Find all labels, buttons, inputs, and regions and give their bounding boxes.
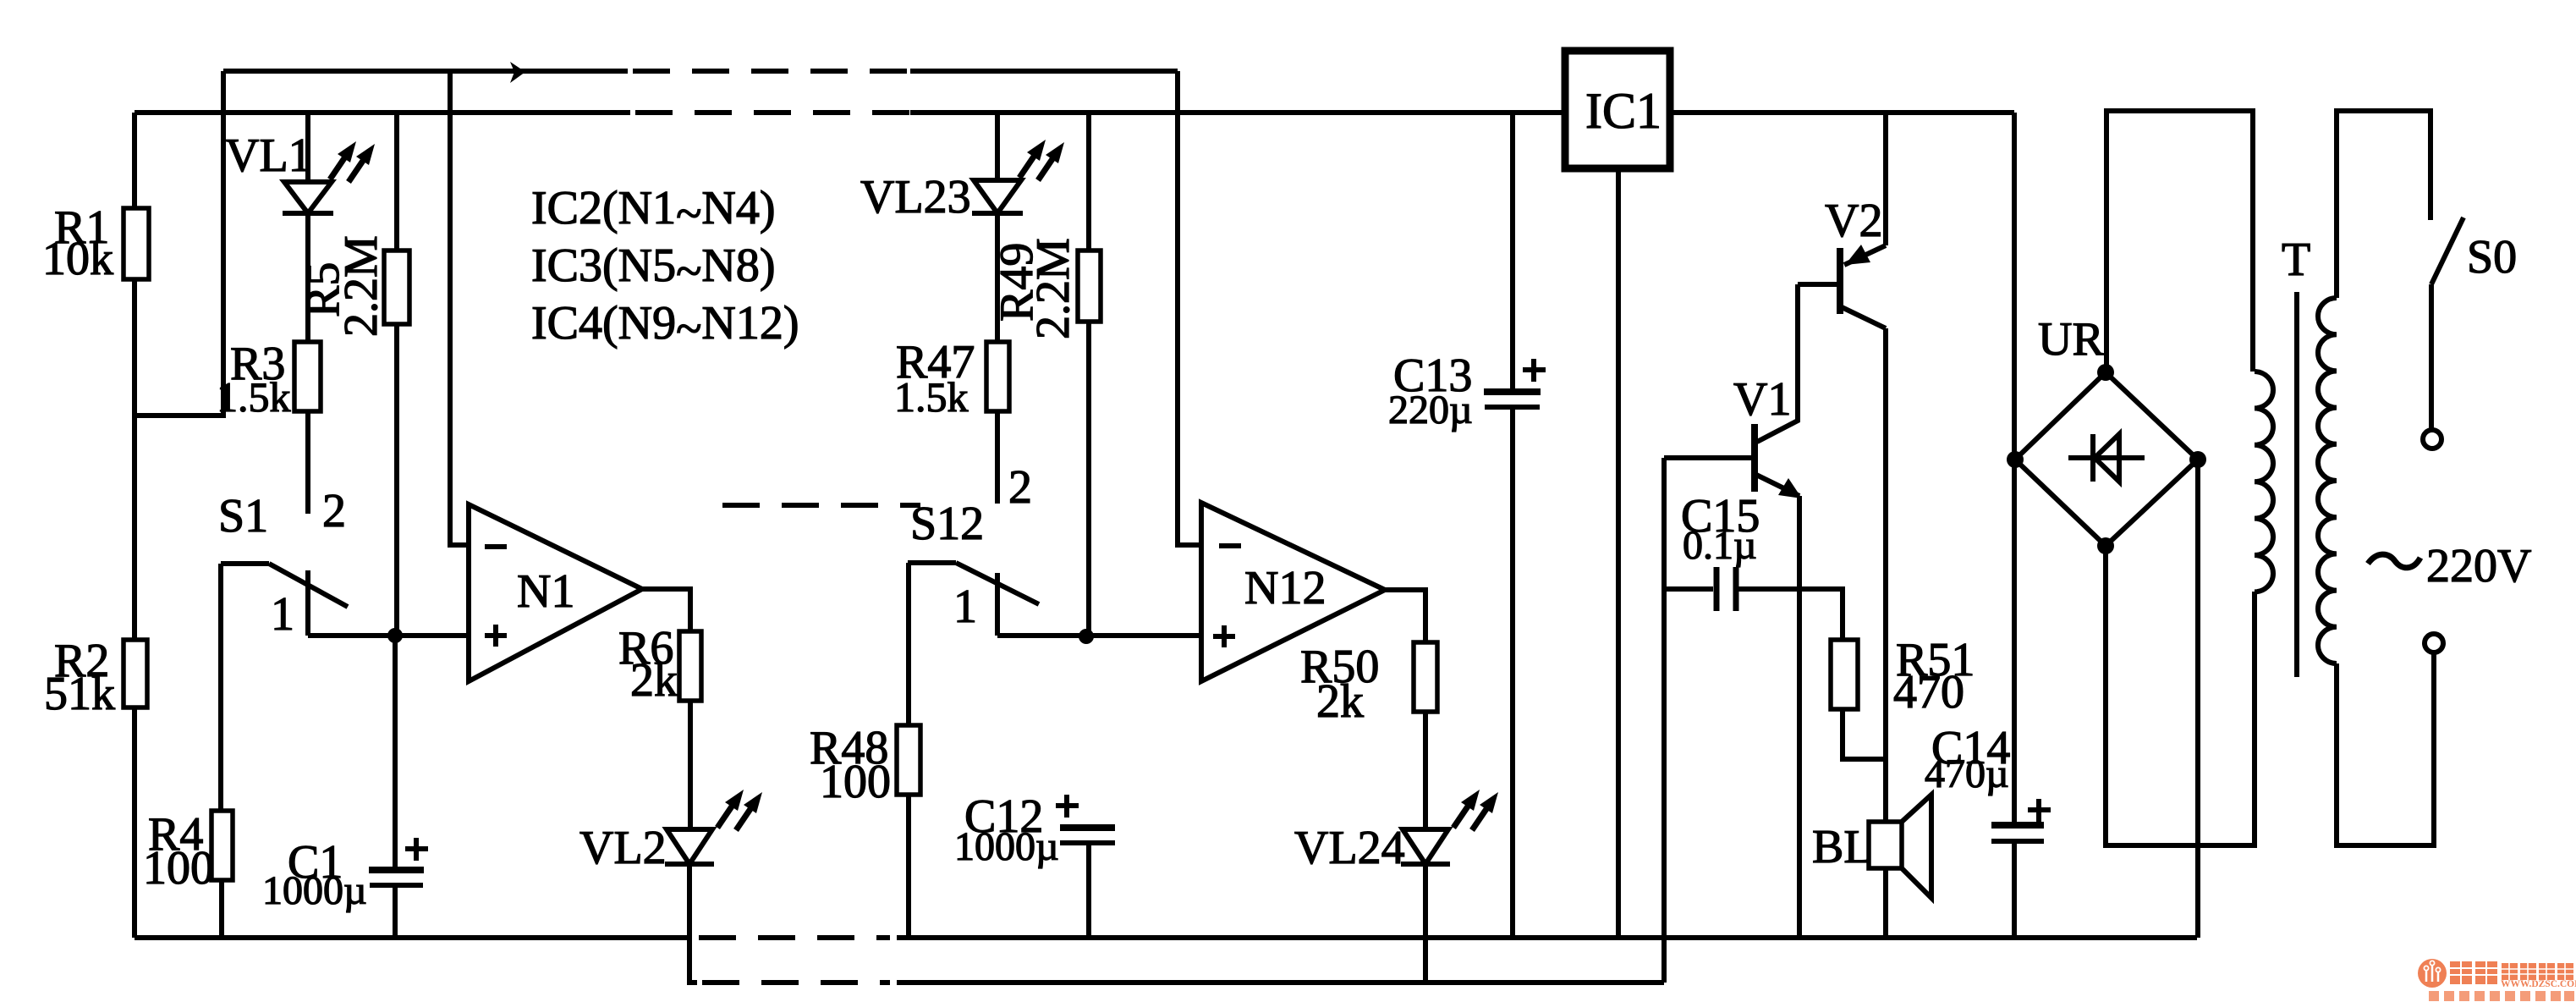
resistor R48 bbox=[897, 725, 920, 795]
svg-text:UR: UR bbox=[2038, 313, 2104, 366]
svg-text:IC4(N9~N12): IC4(N9~N12) bbox=[531, 297, 799, 355]
node junction dot N12 input bbox=[1079, 629, 1094, 644]
wire BL bottom to ground rail bbox=[1883, 868, 1888, 938]
svg-text:2: 2 bbox=[322, 485, 346, 537]
wire left column R1-R2 vertical bbox=[132, 113, 137, 938]
resistor R49 bbox=[1086, 113, 1091, 250]
svg-text:2: 2 bbox=[1008, 461, 1032, 514]
dashed row between S1 and S12 bbox=[722, 503, 920, 508]
resistor R50 bbox=[1414, 642, 1437, 712]
svg-text:S12: S12 bbox=[910, 498, 984, 550]
resistor R47 bbox=[995, 213, 1000, 342]
wire R4 to ground rail bbox=[219, 880, 224, 938]
svg-text:2k: 2k bbox=[630, 654, 678, 707]
svg-text:V1: V1 bbox=[1733, 373, 1791, 426]
ground rail A solid left bbox=[135, 935, 689, 940]
wire top rail 1 solid right bbox=[910, 69, 1178, 74]
ground rail A dashed middle bbox=[699, 935, 890, 940]
svg-text:N1: N1 bbox=[517, 565, 574, 618]
svg-text:1: 1 bbox=[953, 581, 977, 633]
svg-text:10k: 10k bbox=[42, 233, 113, 285]
svg-text:100: 100 bbox=[143, 842, 214, 895]
transformer T core bbox=[2294, 292, 2299, 677]
rail B dashed left bbox=[702, 980, 890, 985]
svg-text:VL24: VL24 bbox=[1294, 822, 1405, 874]
svg-text:2.2M: 2.2M bbox=[1027, 238, 1079, 339]
wire junction down to C1 bbox=[393, 636, 398, 867]
transistor V2 bbox=[1883, 113, 1888, 245]
wire S1 contact1 to N1 plus input bbox=[308, 633, 469, 638]
wire R48 to ground rail bbox=[906, 795, 911, 938]
LED VL23 bbox=[995, 113, 1000, 180]
wire top rail 2 solid left bbox=[135, 110, 630, 115]
svg-text:2k: 2k bbox=[1316, 675, 1364, 728]
terminal circle lower bbox=[2425, 634, 2443, 652]
svg-text:0.1µ: 0.1µ bbox=[1683, 523, 1757, 568]
wire secondary top U to S0 bbox=[2337, 111, 2430, 298]
wire R51 bottom jog to emitter column bbox=[1843, 709, 1886, 759]
switch S0 blade bbox=[2431, 217, 2463, 284]
wire R3 to S1 contact 2 stub bbox=[305, 411, 310, 514]
resistor R51 bbox=[1831, 640, 1858, 709]
node junction dot N1 input bbox=[387, 628, 403, 643]
transformer T primary coil bbox=[2255, 372, 2273, 592]
svg-text:N12: N12 bbox=[1244, 562, 1326, 614]
svg-text:VL1: VL1 bbox=[225, 129, 312, 182]
svg-text:S1: S1 bbox=[218, 490, 268, 542]
svg-text:T: T bbox=[2282, 234, 2310, 286]
rail B solid right bbox=[897, 980, 1664, 985]
svg-text:VL2: VL2 bbox=[579, 822, 667, 874]
wire N1 output to R6 bbox=[642, 589, 690, 631]
svg-text:51k: 51k bbox=[44, 668, 115, 720]
wire V2 base down to V1 collector bbox=[1757, 284, 1798, 442]
watermark slogan bbox=[2429, 991, 2574, 1001]
resistor R2 bbox=[124, 640, 147, 707]
transistor V1 bbox=[1751, 424, 1758, 492]
wire top rail 2 from IC1 to right corner bbox=[1670, 110, 2014, 115]
wire right power column from rail2 down through C14 bbox=[2012, 113, 2017, 824]
transformer T secondary coil bbox=[2318, 298, 2337, 663]
LED VL2 bbox=[667, 829, 712, 864]
capacitor C12 bbox=[1060, 824, 1115, 831]
svg-text:220µ: 220µ bbox=[1388, 388, 1473, 432]
IC IC1 bbox=[1565, 51, 1670, 168]
wire N12 minus input from rail1 bbox=[1178, 71, 1201, 545]
wire R47 to S12 contact 2 stub bbox=[995, 411, 1000, 504]
resistor R4 bbox=[211, 811, 233, 880]
VL23 light arrows bbox=[1019, 151, 1037, 178]
capacitor C13 bbox=[1510, 113, 1515, 388]
wire VL24 cathode down to rail B bbox=[1423, 864, 1428, 983]
VL1 light arrows bbox=[330, 153, 348, 179]
svg-text:470: 470 bbox=[1893, 666, 1964, 718]
VL2 light arrows bbox=[717, 801, 735, 828]
svg-text:1: 1 bbox=[271, 588, 294, 641]
op-amp N1 bbox=[469, 504, 642, 681]
wire S12 pole down to R48 bbox=[906, 563, 911, 725]
label 220V bbox=[2368, 554, 2420, 568]
wire UR bottom to transformer primary bottom bbox=[2106, 546, 2255, 845]
svg-text:2.2M: 2.2M bbox=[335, 235, 387, 337]
capacitor C1 bbox=[369, 867, 424, 873]
wire UR right corner to ground rail bbox=[2195, 460, 2200, 938]
wire V1 base column down to rail B bbox=[1661, 458, 1667, 983]
wire V2 emitter down to R51 junction and BL bbox=[1883, 328, 1888, 822]
svg-text:S0: S0 bbox=[2467, 231, 2517, 284]
svg-text:220V: 220V bbox=[2426, 540, 2531, 592]
capacitor C14 bbox=[1991, 822, 2044, 829]
wire top rail 1 solid left bbox=[223, 69, 628, 74]
wire R6 to VL2 bbox=[688, 701, 693, 829]
watermark text 维库 bbox=[2450, 961, 2497, 984]
wire rail1 corner down to R1/R2 junction jog bbox=[135, 71, 223, 416]
wire V1 emitter down to ground rail bbox=[1797, 496, 1802, 938]
wire R50 to VL24 bbox=[1423, 712, 1428, 829]
svg-text:1.5k: 1.5k bbox=[217, 373, 291, 421]
svg-text:1.5k: 1.5k bbox=[894, 373, 969, 421]
svg-text:WWW.DZSC.COM: WWW.DZSC.COM bbox=[2501, 979, 2576, 989]
svg-text:470µ: 470µ bbox=[1925, 751, 2009, 796]
rail B corner stub bbox=[687, 980, 697, 985]
svg-text:1000µ: 1000µ bbox=[954, 824, 1059, 869]
wire lower terminal to secondary bottom bbox=[2337, 652, 2434, 845]
op-amp N12 bbox=[1201, 503, 1385, 681]
wire top rail 2 solid to IC1 bbox=[910, 110, 1565, 115]
watermark logo circle bbox=[2418, 959, 2447, 988]
resistor R3 bbox=[305, 213, 310, 342]
LED VL24 bbox=[1403, 829, 1448, 864]
svg-text:1000µ: 1000µ bbox=[262, 868, 367, 913]
resistor R5 bbox=[394, 113, 399, 250]
terminal circle upper bbox=[2423, 430, 2441, 449]
svg-text:IC2(N1~N4): IC2(N1~N4) bbox=[531, 182, 775, 240]
svg-text:100: 100 bbox=[820, 756, 891, 808]
LED VL1 bbox=[305, 113, 310, 182]
ground rail A solid right bbox=[897, 935, 2197, 940]
svg-text:VL23: VL23 bbox=[860, 171, 971, 223]
wire VL2 cathode down to rail B corner bbox=[687, 864, 692, 983]
resistor R6 bbox=[679, 631, 701, 701]
svg-text:IC3(N5~N8): IC3(N5~N8) bbox=[531, 239, 775, 298]
svg-text:IC1: IC1 bbox=[1585, 83, 1661, 139]
speaker BL bbox=[1869, 822, 1902, 868]
svg-text:V2: V2 bbox=[1825, 195, 1882, 247]
VL24 light arrows bbox=[1453, 801, 1471, 828]
wire N1 minus input from rail1 bbox=[450, 71, 469, 545]
wire top U bridge-transformer bbox=[2106, 111, 2253, 372]
wire S12 contact1 to N12 plus input bbox=[997, 633, 1201, 638]
wire IC1 bottom pin to ground rail bbox=[1616, 168, 1621, 938]
bridge rectifier UR bbox=[2015, 372, 2198, 546]
capacitor C15 bbox=[1664, 586, 1713, 592]
resistor R1 bbox=[124, 208, 149, 279]
wire top rail 2 dashed middle bbox=[635, 110, 910, 115]
wire top rail 1 dashed middle bbox=[633, 69, 910, 74]
wire N12 output to R50 bbox=[1385, 590, 1425, 642]
watermark text dianzishichangwang bbox=[2502, 963, 2573, 980]
arrow on rail 1 bbox=[510, 62, 525, 83]
svg-text:BL: BL bbox=[1812, 821, 1873, 873]
wire S1 pole down to R4 bbox=[218, 564, 223, 811]
